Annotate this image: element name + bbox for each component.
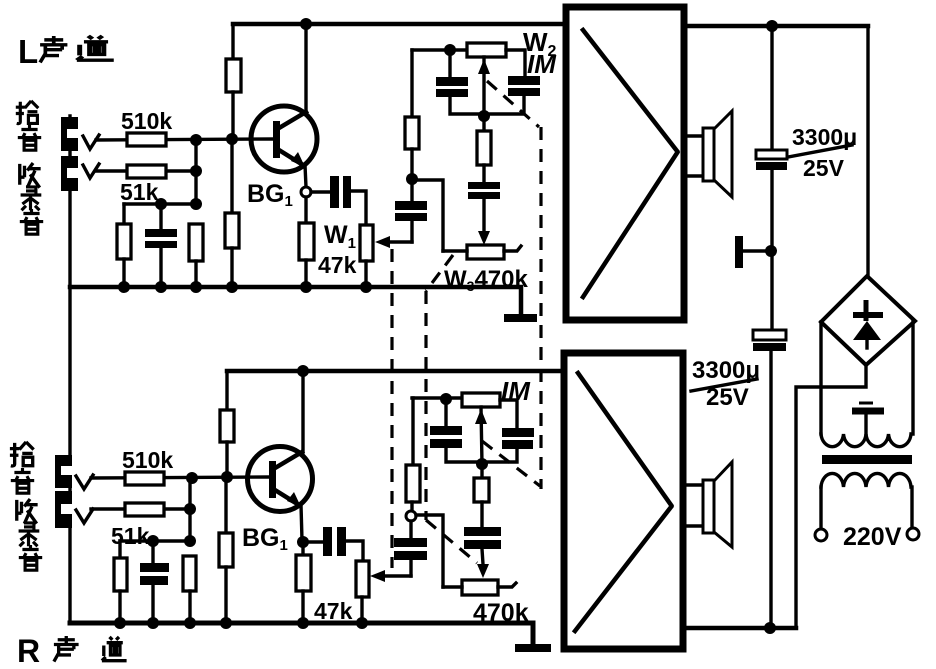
wire: L row3 bias node [124, 202, 196, 205]
wire: branch resistor to node (R) [410, 502, 413, 511]
junction: row3 right (L) [190, 198, 202, 210]
wire: W2 top link (L) [412, 48, 467, 51]
plug contact arrow (R row1) [76, 475, 93, 489]
transformer T1 primary winding [821, 473, 911, 487]
wire: into left shunt resistor (R) [118, 541, 121, 558]
resistor: R emitter resistor [296, 555, 311, 591]
wire: collector to rail (L) [304, 24, 307, 112]
wire: mid resistor to cap (L) [482, 165, 485, 182]
svg-text:R: R [17, 633, 40, 669]
connector: L jack J1 (pickup) [61, 117, 78, 151]
wire: into left bias resistor (L) [122, 204, 125, 224]
wire: bridge + output down/left [796, 365, 866, 628]
wire: W1 bottom to bus (R) [360, 597, 363, 623]
wire: branch node to W3 left (L) [412, 180, 443, 251]
wire: left branch vertical top (R) [411, 398, 414, 465]
svg-text:25V: 25V [706, 384, 749, 411]
capacitor: L tone series cap [468, 182, 500, 199]
junction: emitter node (R) [297, 536, 309, 548]
wire: W2 top link (R) [412, 396, 462, 399]
wire: R output bottom [683, 626, 796, 631]
junction: base node (R) [221, 471, 233, 483]
bridge rectifier D1 [821, 276, 915, 365]
transformer core [822, 455, 912, 464]
capacitor C1 3300u/25V (L electrolytic) [756, 150, 787, 170]
dashed gang link W2 (L diagonal) [487, 81, 539, 127]
junction: top supply tap [766, 20, 778, 32]
junction dots on R bus [114, 617, 126, 629]
wire: bias to base (L) [231, 92, 234, 139]
label: input "收录音" (R) [17, 499, 42, 570]
wire: shunt right to bus (R) [188, 591, 191, 623]
capacitor: W2 left cap (L) [436, 54, 484, 114]
svg-text:25V: 25V [803, 155, 845, 181]
capacitor: W2 right cap (L) [484, 76, 540, 114]
wire: cap to W3 wiper arrow (L) [478, 199, 490, 245]
resistor: L tone mid resistor [477, 131, 491, 165]
wire: vertical tie x190 (R) [188, 478, 191, 541]
label: input "拾音" (L) [16, 101, 41, 150]
node: branch node open circle (R) [406, 511, 416, 521]
svg-text:47k: 47k [314, 598, 353, 624]
dashed gang line W2 L-R vertical [539, 127, 542, 489]
resistor 51k (L) [127, 165, 166, 178]
wire: L supply rail [233, 22, 566, 27]
dashed gang link W3 (R diagonal) [426, 520, 477, 563]
wire: W3 left lead (R) [443, 585, 462, 588]
wire: left ground vertical from L jacks to R bus [68, 116, 71, 623]
wire: emitter down (L) [305, 165, 306, 187]
wire: shunt right to bus (L) [194, 261, 197, 287]
wiper of W2 with up arrow (R) [475, 407, 487, 464]
potentiometer W2 1M (R) body [462, 393, 500, 407]
junction: R output at cap [764, 622, 776, 634]
transformer center tap with plate [852, 403, 884, 434]
junction: W1 at bus (R) [356, 617, 368, 629]
junction: row1 tie (R) [186, 472, 198, 484]
wire: to bus (R left shunt) [118, 591, 121, 623]
wire: bridge AC right lead [911, 321, 914, 434]
op-amp module U2 (R power amp block) [564, 353, 683, 649]
speaker SP2 (R) [685, 462, 732, 547]
plug contact arrow (L row2) [83, 164, 99, 178]
junction: row2 (R) [184, 503, 196, 515]
resistor: L input shunt left [117, 224, 131, 259]
wiper arrow of W1 (L) [375, 236, 412, 248]
junction: W2 left node (L) [444, 44, 456, 56]
resistor: L lower bias [225, 213, 239, 248]
potentiometer W3 470k (R) body [462, 580, 498, 595]
wire: R ground bus [70, 623, 533, 644]
capacitor: decoupling stub cap [735, 236, 770, 268]
potentiometer W2 1M (L) body [467, 43, 506, 57]
wire: bias to base (R) [225, 442, 228, 477]
junction: stub cap tap [765, 245, 777, 257]
junction: W1 at bus (L) [360, 281, 372, 293]
dashed gang line W3 L-R vertical [424, 291, 427, 520]
node: emitter node open circle (L) [301, 187, 311, 197]
wire: right supply drop to bridge [866, 26, 869, 276]
wire: W2 right lead down (R) [500, 400, 517, 428]
resistor: R input shunt left [114, 558, 127, 591]
wire: lower bias to bus (R) [224, 567, 227, 623]
resistor 51k (R) [125, 503, 164, 516]
junction: row3 mid (R) [147, 535, 159, 547]
potentiometer W1 47k (R) body [356, 561, 369, 597]
resistor: R tone mid resistor [474, 478, 489, 502]
wire: node to mid resistor (R) [480, 464, 483, 478]
resistor: R input shunt right [183, 556, 196, 591]
label: 3300u/25V (L) [788, 124, 857, 181]
plug contact arrow (R row2) [76, 509, 93, 523]
wire: L output / supply top [684, 24, 868, 29]
dashed gang link W2 (R diagonal) [482, 441, 540, 486]
connector: R jack J3 (pickup) [55, 455, 72, 488]
wire: left branch vertical top (L) [410, 50, 413, 117]
junction: row3 mid (L) [155, 198, 167, 210]
wire: rail drop to bias resistor (L) [231, 24, 234, 59]
resistor: R upper bias [220, 410, 234, 442]
svg-text:51k: 51k [120, 179, 159, 205]
dashed gang line W1 L-R [390, 249, 393, 568]
wire: W2 right lead down (L) [506, 50, 525, 76]
wire: L ground bus [70, 287, 521, 315]
wire: rail drop to bias resistor (R) [225, 371, 228, 410]
capacitor: L coupling cap [330, 176, 351, 208]
wire: to bus (L left shunt) [122, 259, 125, 287]
capacitor: W2 left cap (R) [430, 403, 482, 462]
wire: W3 left lead (L) [443, 249, 467, 252]
wire: coupling cap to W1 top (R) [346, 541, 363, 561]
junction: row3 right (R) [184, 535, 196, 547]
junction: collector at rail (L) [300, 18, 312, 30]
svg-text:47k: 47k [318, 252, 357, 278]
transistor BG1 (R) [248, 447, 313, 512]
junction: W2 wiper node (L) [478, 110, 490, 122]
wiper of W2 with up arrow (L) [478, 57, 490, 116]
wire: W3 right stub (R) [498, 583, 516, 587]
connector: R jack J4 (tape) [55, 491, 72, 528]
resistor: L upper bias [226, 59, 241, 92]
label: input "拾音" (R) [10, 442, 34, 493]
wire: branch resistor to node (L) [410, 149, 413, 179]
capacitor: W2 right cap (R) [482, 428, 534, 462]
capacitor: R coupling cap [323, 527, 346, 556]
wire: base node down (L) [230, 139, 233, 213]
svg-text:510k: 510k [122, 447, 173, 473]
capacitor C2 3300u/25V (R electrolytic) [753, 330, 786, 351]
capacitor: L input filter cap [145, 204, 177, 287]
wire: W3 right stub (L) [504, 246, 521, 251]
transistor BG1 (L) [251, 106, 317, 172]
potentiometer W1 47k (L) body [360, 225, 373, 261]
capacitor: R branch cap [394, 521, 427, 576]
junction: W2 wiper node (R) [476, 458, 488, 470]
wire: R supply rail [227, 369, 564, 374]
wire: base node down (R) [224, 477, 227, 533]
junction: W2 left node (R) [440, 393, 452, 405]
wire: emitter resistor to bus (L) [304, 260, 307, 287]
capacitor: R tone series cap [464, 527, 501, 549]
wire: R row3 bias node [120, 539, 190, 542]
svg-text:IM: IM [527, 49, 557, 79]
potentiometer W3 470k (L) body [467, 245, 504, 259]
resistor: R lower bias [219, 533, 233, 567]
wire: C1 down to mid tap [770, 170, 773, 330]
capacitor: R input filter cap [140, 541, 169, 623]
label: 3300u/25V (R) [691, 357, 760, 411]
svg-text:51k: 51k [111, 523, 150, 549]
svg-text:L: L [18, 33, 38, 70]
wire: node to mid resistor (L) [482, 116, 485, 131]
ground symbol (L bus) [504, 314, 537, 322]
wire: R input row2 [91, 507, 190, 510]
dashed gang link W3 (L diagonal) [426, 255, 453, 291]
wire: R input row1 to base [91, 477, 269, 478]
wire: L input row1 to base [96, 139, 273, 140]
wire: lower bias to bus (L) [230, 248, 233, 287]
wire: emitter node to resistor (R) [301, 542, 304, 555]
terminal: 220V right [907, 528, 919, 540]
wire: emitter resistor to bus (R) [301, 591, 304, 623]
wire: L input row2 [96, 169, 196, 172]
wire: branch node to W3 left (R) [416, 515, 443, 587]
label: R channel title "R 声 道" [17, 633, 127, 669]
wire: primary right lead [910, 487, 913, 528]
junction: base node (L) [226, 133, 238, 145]
transformer T1 secondary winding [821, 434, 911, 447]
wire: coupling cap to W1 top (L) [351, 191, 366, 225]
resistor: L emitter resistor [299, 223, 314, 260]
svg-text:220V: 220V [843, 523, 902, 551]
resistor: L treble branch resistor [405, 117, 419, 149]
svg-text:510k: 510k [121, 108, 172, 134]
connector: L jack J2 (tape) [61, 156, 78, 191]
wire: vertical tie x196 (L) [194, 140, 197, 204]
wire: W1 bottom to bus (L) [364, 261, 367, 287]
wire: C2 down to R output [769, 351, 772, 628]
wire: mid resistor to cap (R) [480, 502, 483, 527]
resistor: L input shunt right [189, 224, 203, 261]
wire: primary left lead [819, 487, 822, 529]
svg-text:470k: 470k [473, 599, 529, 627]
wire: bridge AC left lead [819, 322, 822, 434]
capacitor: L branch cap [395, 179, 427, 242]
svg-text:W3470k: W3470k [444, 266, 528, 294]
wiper arrow of W1 (R) [370, 570, 411, 582]
junction dots on L bus [118, 281, 130, 293]
wire: emitter to coupling cap (R) [308, 540, 323, 543]
label: input "收录音" (L) [20, 163, 43, 234]
wire: emitter to coupling cap (L) [311, 190, 330, 193]
wire: emitter down (R) [301, 505, 302, 540]
speaker SP1 (L) [686, 111, 732, 197]
junction: row2 (L) [190, 165, 202, 177]
resistor 510k (L) [127, 133, 166, 146]
resistor 510k (R) [125, 472, 164, 485]
wire: cap to W3 wiper arrow (R) [477, 549, 489, 578]
ground symbol (R bus) [515, 644, 551, 652]
op-amp module U1 (L power amp block) [566, 7, 684, 320]
label: L channel title "L声道" [18, 33, 114, 70]
plug contact arrow (L row1) [83, 135, 99, 149]
wire: collector to rail (R) [301, 371, 304, 452]
wire: emitter node to resistor (L) [304, 197, 307, 223]
terminal: 220V left [815, 529, 827, 541]
wire: top tap down to C 3300u (L) [770, 26, 773, 150]
junction: row1/row2 tie (L) [190, 134, 202, 146]
junction: branch node (L) [406, 173, 418, 185]
junction: collector at rail (R) [297, 365, 309, 377]
resistor: R treble branch resistor [406, 465, 420, 502]
